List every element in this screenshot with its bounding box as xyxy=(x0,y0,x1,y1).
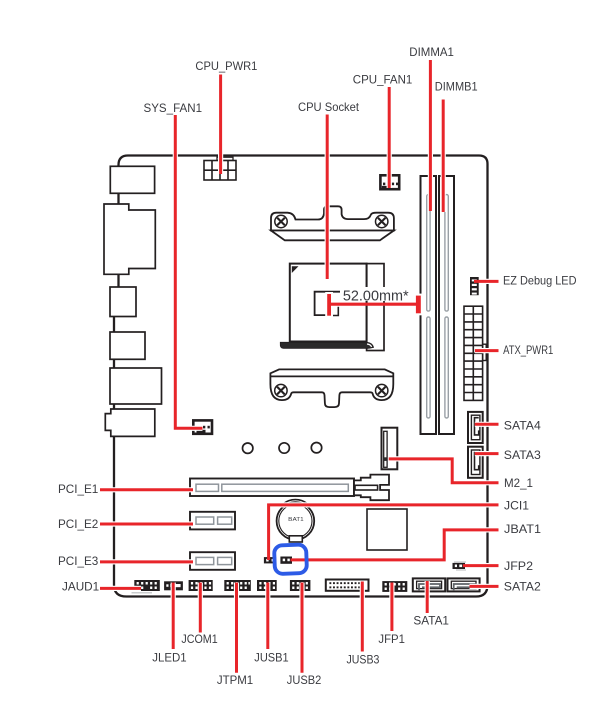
svg-text:SYS_FAN1: SYS_FAN1 xyxy=(144,101,203,115)
dimension line 52mm xyxy=(325,287,423,318)
callout lines (red) xyxy=(100,60,499,673)
svg-text:JUSB3: JUSB3 xyxy=(347,653,380,667)
callout JBAT1 xyxy=(291,528,499,560)
jumper JBAT1 xyxy=(280,557,292,564)
callout JFP2 xyxy=(463,564,499,567)
io port 3 xyxy=(110,287,136,317)
svg-text:DIMMB1: DIMMB1 xyxy=(435,79,478,93)
socket corner triangle xyxy=(292,266,299,273)
chipset xyxy=(367,509,407,550)
svg-text:JAUD1: JAUD1 xyxy=(62,579,100,593)
connector CPU_FAN1 xyxy=(380,175,399,189)
connector JTPM1 xyxy=(224,580,251,591)
svg-text:JUSB1: JUSB1 xyxy=(254,651,289,665)
svg-text:PCI_E3: PCI_E3 xyxy=(58,554,99,568)
callout JTPM1 xyxy=(235,583,238,673)
cpu retention bracket top xyxy=(271,206,394,240)
callout DIMMB1 xyxy=(442,100,445,213)
SATA1 port xyxy=(413,578,445,591)
M.2 slot M2_1 xyxy=(382,428,398,470)
callout CPU_FAN1 xyxy=(388,87,391,188)
callout SATA4 xyxy=(475,423,499,426)
connector JUSB3 xyxy=(326,580,369,591)
callout JUSB2 xyxy=(301,583,304,673)
svg-text:JFP2: JFP2 xyxy=(504,559,533,573)
svg-text:BAT1: BAT1 xyxy=(288,517,304,523)
connector JUSB1 xyxy=(257,580,277,591)
DIMM slot DIMMB1 xyxy=(439,176,454,434)
svg-text:52.00mm*: 52.00mm* xyxy=(343,288,409,305)
svg-text:JCI1: JCI1 xyxy=(504,499,529,513)
EZ Debug LED xyxy=(470,277,479,295)
svg-text:ATX_PWR1: ATX_PWR1 xyxy=(503,343,553,357)
board outline xyxy=(114,156,488,597)
callout EZ Debug LED xyxy=(474,280,499,283)
screw top-right xyxy=(376,215,388,227)
CPU socket xyxy=(290,264,384,351)
highlight box JBAT1 xyxy=(274,544,307,574)
io port vga xyxy=(104,204,155,274)
standoff circle 2 xyxy=(279,443,289,453)
svg-text:JFP1: JFP1 xyxy=(378,632,405,646)
svg-text:DIMMA1: DIMMA1 xyxy=(409,45,454,59)
callout JCI1 xyxy=(269,503,499,560)
connector SYS_FAN1 xyxy=(193,420,212,433)
connector ATX_PWR1 xyxy=(464,306,486,400)
callout lines (white casing) xyxy=(175,60,443,428)
svg-text:M2_1: M2_1 xyxy=(504,476,533,490)
svg-text:EZ Debug LED: EZ Debug LED xyxy=(503,274,577,288)
callout CPU Socket xyxy=(326,115,329,280)
callout JLED1 xyxy=(172,583,175,650)
callout M2_1 xyxy=(389,457,499,482)
slot PCI_E2 xyxy=(190,512,235,530)
svg-text:SATA2: SATA2 xyxy=(504,580,541,594)
callout SYS_FAN1 xyxy=(174,115,203,428)
callout JUSB1 xyxy=(266,583,269,650)
svg-text:SATA4: SATA4 xyxy=(504,419,541,433)
SATA3 port xyxy=(468,447,483,478)
svg-text:CPU_PWR1: CPU_PWR1 xyxy=(195,59,257,73)
svg-text:JUSB2: JUSB2 xyxy=(287,673,322,687)
callout ATX_PWR1 xyxy=(475,349,499,352)
io port 5 xyxy=(110,368,162,404)
connector JFP1 xyxy=(382,581,407,592)
io port audio xyxy=(105,409,155,436)
svg-text:JTPM1: JTPM1 xyxy=(217,673,254,687)
cpu retention bracket bottom xyxy=(270,369,393,407)
callout SATA2 xyxy=(470,585,499,588)
callout PCI_E2 xyxy=(100,523,193,526)
connector JLED1 xyxy=(164,581,183,590)
callout CPU_PWR1 xyxy=(219,75,222,175)
connector CPU_PWR1 xyxy=(204,157,236,180)
connector JAUD1 xyxy=(132,580,160,593)
svg-text:PCI_E2: PCI_E2 xyxy=(58,517,99,531)
callout JUSB3 xyxy=(361,582,364,652)
callout SATA3 xyxy=(475,452,499,455)
standoff circle 1 xyxy=(243,443,253,453)
DIMM slot DIMMA1 xyxy=(421,176,437,434)
connector JUSB2 xyxy=(290,580,311,591)
callout SATA1 xyxy=(426,581,429,613)
PCI_E1 latch xyxy=(354,475,389,501)
slot PCI_E3 xyxy=(190,552,235,570)
callout JAUD1 xyxy=(100,587,141,590)
io port 1 xyxy=(110,166,154,193)
svg-text:PCI_E1: PCI_E1 xyxy=(58,482,99,496)
SATA4 port xyxy=(468,412,483,443)
svg-text:SATA1: SATA1 xyxy=(413,614,449,628)
socket inner square xyxy=(315,292,346,316)
svg-text:CPU_FAN1: CPU_FAN1 xyxy=(353,73,413,87)
standoff circle 3 xyxy=(311,443,321,453)
svg-text:SATA3: SATA3 xyxy=(504,448,541,462)
socket lever blade xyxy=(280,342,373,348)
slot PCI_E1 xyxy=(190,479,354,497)
svg-text:JBAT1: JBAT1 xyxy=(504,522,541,536)
SATA2 port xyxy=(448,578,480,591)
svg-text:JCOM1: JCOM1 xyxy=(181,632,218,646)
io port 4 xyxy=(110,332,145,359)
svg-text:CPU Socket: CPU Socket xyxy=(298,100,360,114)
jumper JCI1 xyxy=(264,557,276,563)
connector JCOM1 xyxy=(189,580,213,591)
callout JCOM1 xyxy=(199,583,202,633)
screw bottom-left xyxy=(275,384,287,396)
screw bottom-right xyxy=(376,384,388,396)
battery BAT1 xyxy=(277,500,315,542)
callout JFP1 xyxy=(390,583,393,632)
screw top-left xyxy=(275,215,287,227)
callout DIMMA1 xyxy=(429,60,432,211)
callout PCI_E1 xyxy=(100,488,193,491)
svg-text:JLED1: JLED1 xyxy=(152,651,187,665)
callout PCI_E3 xyxy=(100,560,193,563)
connector JFP2 xyxy=(453,562,467,570)
